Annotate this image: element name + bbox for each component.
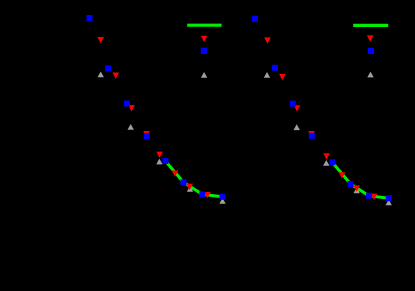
right gray up-triangle 2: [294, 124, 300, 130]
right red down-triangle 1: [264, 37, 271, 43]
left blue square 4: [144, 133, 150, 139]
right blue square 7: [366, 193, 372, 199]
right gray up-triangle 5: [386, 200, 392, 206]
right legend blue square: [368, 48, 374, 54]
left blue square 5: [162, 158, 168, 164]
left red down-triangle 7: [186, 184, 193, 190]
left red down-triangle 5: [156, 152, 163, 158]
right red down-triangle 3: [294, 105, 301, 111]
right blue square 8: [386, 195, 392, 201]
right red down-triangle 6: [339, 172, 346, 178]
left gray up-triangle 1: [98, 72, 104, 78]
right gray up-triangle 3: [323, 160, 329, 166]
left legend red down-triangle: [201, 36, 208, 42]
left blue square 3: [124, 101, 130, 107]
left blue square 1: [87, 15, 93, 21]
left red down-triangle 2: [113, 73, 120, 79]
left blue square 2: [105, 65, 111, 71]
left legend blue square: [201, 48, 207, 54]
left gray up-triangle 4: [187, 186, 193, 192]
right gray up-triangle 4: [354, 187, 360, 193]
right blue square 3: [290, 101, 296, 107]
left legend green line: [187, 24, 221, 27]
left gray up-triangle 5: [219, 198, 225, 204]
right blue square 6: [348, 181, 354, 187]
left blue square 6: [181, 179, 187, 185]
left gray up-triangle 2: [128, 124, 134, 130]
left blue square 8: [220, 194, 226, 200]
right gray up-triangle 1: [264, 72, 270, 78]
right legend red down-triangle: [367, 35, 374, 41]
right red down-triangle 7: [353, 185, 360, 191]
right blue square 2: [272, 65, 278, 71]
left red down-triangle 3: [128, 105, 135, 111]
right blue square 1: [252, 16, 258, 22]
right red down-triangle 2: [279, 74, 286, 80]
left blue square 7: [199, 191, 205, 197]
left panel green fit line: [165, 161, 222, 197]
left red down-triangle 1: [97, 37, 104, 43]
right blue square 4: [309, 133, 315, 139]
right legend gray up-triangle: [367, 72, 373, 78]
left gray up-triangle 3: [156, 159, 162, 165]
left red down-triangle 6: [172, 171, 179, 177]
right red down-triangle 4: [308, 131, 315, 137]
right red down-triangle 8: [371, 194, 378, 200]
right legend green line: [353, 24, 388, 27]
left red down-triangle 4: [143, 131, 150, 137]
right panel green fit line: [332, 162, 388, 198]
left legend gray up-triangle: [201, 72, 207, 78]
left red down-triangle 8: [204, 192, 211, 198]
right blue square 5: [329, 159, 335, 165]
right red down-triangle 5: [323, 153, 330, 159]
